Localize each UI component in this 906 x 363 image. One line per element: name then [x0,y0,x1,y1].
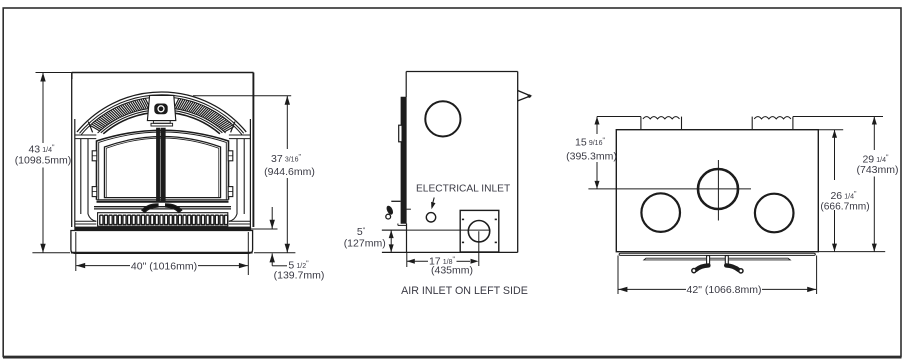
svg-text:AIR INLET ON LEFT SIDE: AIR INLET ON LEFT SIDE [401,285,528,297]
svg-text:(127mm): (127mm) [344,237,386,249]
svg-text:(743mm): (743mm) [856,164,898,176]
svg-text:42" (1066.8mm): 42" (1066.8mm) [687,284,762,296]
svg-text:40" (1016mm): 40" (1016mm) [131,261,197,273]
svg-text:(666.7mm): (666.7mm) [820,201,869,212]
svg-text:(1098.5mm): (1098.5mm) [15,155,72,167]
svg-text:(435mm): (435mm) [431,264,473,276]
svg-text:26 1/4": 26 1/4" [830,190,857,202]
svg-text:(395.3mm): (395.3mm) [566,151,617,163]
svg-text:(944.6mm): (944.6mm) [264,166,315,178]
svg-text:ELECTRICAL INLET: ELECTRICAL INLET [416,183,510,194]
svg-text:(139.7mm): (139.7mm) [274,270,325,282]
